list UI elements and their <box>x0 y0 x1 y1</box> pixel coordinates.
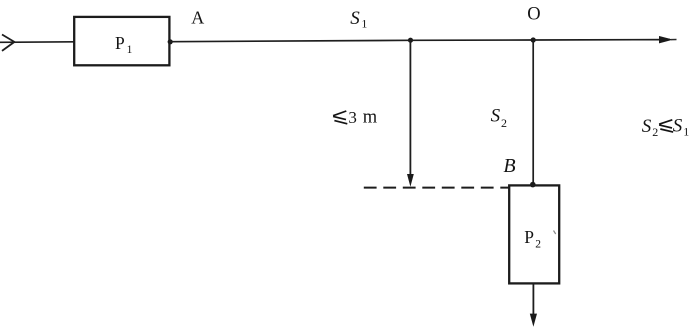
wire: drop from node O to B <box>532 40 534 185</box>
supply source arrowhead <box>2 35 14 51</box>
svg-text:B: B <box>503 155 515 177</box>
wire: A to S1 junction <box>170 40 411 41</box>
svg-text:S: S <box>491 106 501 127</box>
P1 value label <box>115 33 133 56</box>
wire: P2 outgoing <box>532 283 534 314</box>
svg-text:2: 2 <box>652 125 658 139</box>
svg-text:S: S <box>642 116 652 137</box>
wire: branch drop from S1 junction <box>409 40 411 175</box>
label: maximum length 3 m <box>333 108 378 128</box>
P2 value label <box>524 227 541 250</box>
protective device P1 <box>74 17 169 65</box>
svg-text:S: S <box>350 8 360 29</box>
svg-text:2: 2 <box>535 239 541 251</box>
svg-text:S: S <box>673 115 683 136</box>
outgoing arrowhead below P2 <box>530 314 537 327</box>
wire: O to outgoing feeder <box>533 39 670 41</box>
scan speck near P2 right edge <box>554 231 556 235</box>
label S1 <box>350 8 367 30</box>
dashed boundary line <box>364 187 509 189</box>
svg-text:1: 1 <box>127 44 133 56</box>
svg-text:1: 1 <box>683 124 689 138</box>
wire: S1 junction to node O <box>411 39 534 41</box>
svg-text:1: 1 <box>361 17 367 31</box>
wire: incoming supply line to P1 <box>0 41 75 44</box>
svg-text:m: m <box>363 108 378 128</box>
svg-text:O: O <box>527 5 540 25</box>
node O dot <box>531 37 536 42</box>
label S2 <box>491 106 507 130</box>
svg-text:2: 2 <box>501 116 507 130</box>
node B dot (P2 input) <box>530 182 536 188</box>
node A dot (P1 output) <box>168 39 173 44</box>
label S2 <= S1 <box>642 115 689 139</box>
svg-text:A: A <box>191 8 204 28</box>
svg-text:P: P <box>524 227 534 247</box>
svg-text:3: 3 <box>348 108 357 127</box>
branch arrowhead at 3 m limit <box>407 174 414 187</box>
protective device P2 <box>509 185 559 283</box>
svg-text:P: P <box>115 33 125 53</box>
outgoing feeder arrowhead <box>660 37 677 43</box>
junction node at S1 <box>408 38 413 43</box>
